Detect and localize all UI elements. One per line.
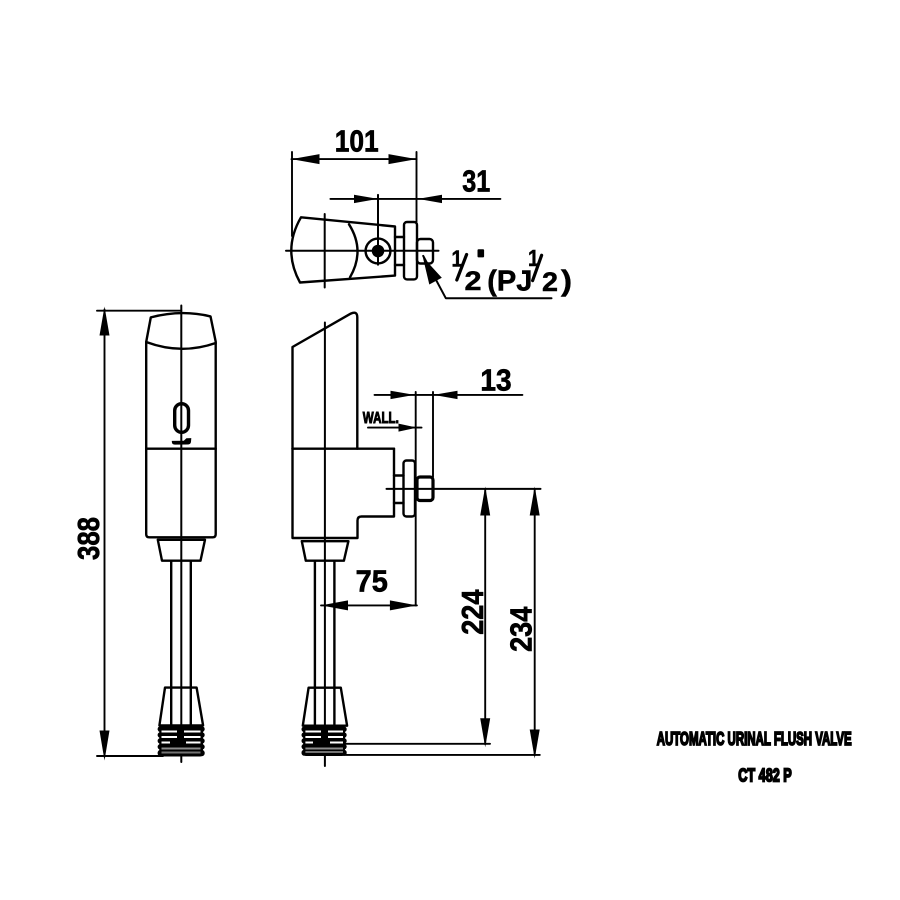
svg-text:13: 13 [480, 363, 511, 398]
svg-text:31: 31 [462, 163, 490, 198]
svg-text:WALL.: WALL. [363, 410, 399, 427]
svg-text:2: 2 [542, 267, 558, 297]
svg-text:234: 234 [504, 606, 539, 652]
svg-text:AUTOMATIC URINAL FLUSH VALVE: AUTOMATIC URINAL FLUSH VALVE [657, 728, 852, 749]
svg-text:CT 482 P: CT 482 P [738, 765, 792, 786]
svg-text:101: 101 [335, 124, 379, 159]
svg-text:(PJ: (PJ [487, 265, 532, 297]
svg-text:224: 224 [455, 589, 490, 635]
svg-text:2: 2 [465, 266, 482, 296]
svg-text:388: 388 [71, 517, 106, 560]
svg-text:75: 75 [356, 564, 388, 599]
svg-text:): ) [561, 265, 572, 297]
